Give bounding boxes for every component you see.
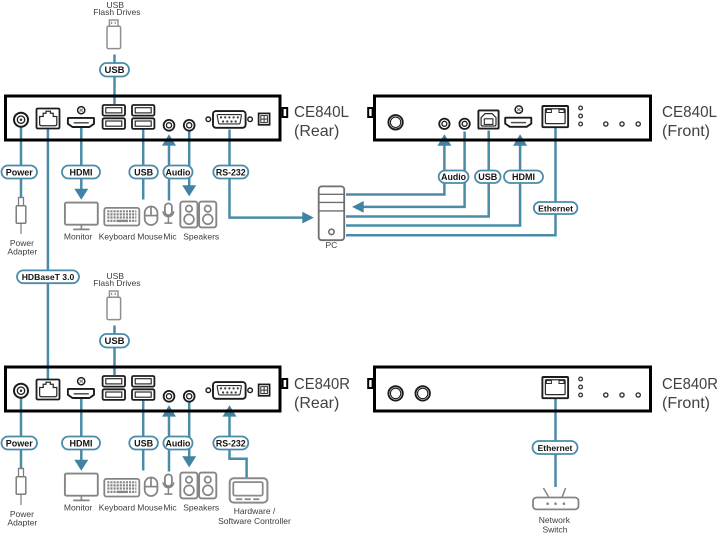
text CE840L (Rear): [294, 104, 349, 140]
CE840R front panel border overlay: [375, 367, 651, 411]
text CE840R (Front): [662, 376, 718, 412]
svg-text:Switch: Switch: [542, 524, 567, 534]
text CE840L (Front): [662, 104, 717, 140]
wire power adapter to CE840L rear DC jack: [20, 127, 23, 198]
svg-text:Software Controller: Software Controller: [218, 516, 291, 526]
CE840L rear panel chassis: [6, 96, 288, 140]
svg-text:USB: USB: [104, 65, 124, 76]
audio-out jack (CE840R rear): [184, 391, 195, 402]
svg-text:HDMI: HDMI: [512, 172, 535, 182]
svg-text:Mic: Mic: [163, 503, 177, 513]
svg-text:CE840R: CE840R: [662, 376, 718, 393]
svg-text:Ethernet: Ethernet: [538, 443, 573, 453]
svg-text:PC: PC: [325, 240, 337, 250]
svg-text:Speakers: Speakers: [183, 232, 219, 242]
DB9 RS-232 port (CE840L rear): [213, 111, 246, 128]
caption USB Flash Drives (top): [93, 0, 140, 17]
svg-text:Power: Power: [6, 438, 34, 448]
wire RS-232 CE840L rear to PC: [230, 130, 303, 218]
wire audio CE840L front to PC line-in: [364, 132, 465, 207]
svg-text:(Front): (Front): [662, 395, 710, 412]
svg-text:HDMI: HDMI: [70, 167, 93, 177]
svg-text:HDMI: HDMI: [70, 438, 93, 448]
wire HDMI CE840R rear to monitor: [80, 399, 83, 460]
wire HDBaseT link CE840L to CE840R: [47, 127, 50, 380]
pushbutton dots (CE840R front): [604, 393, 641, 397]
DB9 screw holes (CE840R rear): [206, 388, 252, 393]
audio-in jack (CE840L rear): [164, 120, 175, 131]
USB flash drive icon (top): [107, 20, 121, 49]
speakers icon (bottom): [180, 473, 216, 499]
CE840R rear panel chassis: [6, 367, 288, 411]
label HDMI (front): [504, 171, 543, 184]
svg-text:HDBaseT 3.0: HDBaseT 3.0: [22, 272, 75, 282]
arrowhead to monitor: [74, 189, 88, 200]
svg-text:Mouse: Mouse: [137, 503, 163, 513]
audio-in jack (CE840R rear): [164, 391, 175, 402]
wire audio-in CE840L rear (from mic): [168, 145, 171, 201]
grounding screw (CE840L rear): [78, 107, 85, 114]
audio jack 2 (CE840L front): [459, 119, 469, 129]
svg-text:Keyboard: Keyboard: [99, 503, 136, 513]
svg-text:RS-232: RS-232: [216, 167, 246, 177]
power adapter icon (top): [16, 198, 26, 235]
svg-text:(Front): (Front): [662, 123, 710, 140]
label USB (flash drive, top): [100, 63, 129, 77]
label USB (bottom): [129, 437, 158, 450]
wire audio-out CE840R rear to speakers: [188, 403, 191, 457]
svg-text:CE840L: CE840L: [662, 104, 717, 121]
LED column (CE840R front): [579, 377, 583, 397]
wire USB CE840L front to PC: [346, 131, 489, 217]
HDMI port (CE840L front): [505, 118, 531, 127]
power jack DC-in (CE840R rear): [14, 384, 28, 398]
caption USB Flash Drives (bottom): [93, 271, 140, 288]
wire HDMI CE840L rear to monitor: [80, 128, 83, 189]
label RS-232 (bottom): [213, 437, 248, 450]
RJ-45 HDBaseT port (CE840R rear): [37, 380, 60, 400]
wire USB CE840R rear to keyboard/mouse: [142, 401, 145, 471]
pushbutton dots (CE840L front): [604, 122, 641, 126]
monitor icon (top): [65, 203, 98, 230]
svg-text:USB: USB: [478, 172, 498, 182]
label USB (front): [475, 171, 501, 184]
RJ-45 HDBaseT port (CE840L rear): [37, 109, 60, 129]
caption Power Adapter (top): [7, 238, 37, 257]
power button (CE840L front): [388, 115, 402, 129]
wire audio-in CE840R rear (from mic): [168, 416, 171, 472]
wire USB CE840L rear to keyboard/mouse: [142, 130, 145, 200]
CE840L rear panel border overlay: [6, 96, 281, 140]
text CE840R (Rear): [294, 376, 350, 412]
PC tower icon: [319, 186, 345, 240]
svg-text:(Rear): (Rear): [294, 395, 339, 412]
HDMI port (CE840R rear): [68, 389, 94, 398]
arrowhead audio into PC: [352, 201, 364, 213]
caption Network Switch: [539, 515, 571, 534]
svg-text:Adapter: Adapter: [7, 246, 37, 256]
microphone icon (bottom): [163, 474, 174, 494]
microphone icon (top): [163, 203, 174, 223]
DB9 RS-232 port (CE840R rear): [213, 382, 246, 399]
label USB (top): [129, 166, 158, 179]
label Audio (bottom): [163, 437, 192, 450]
grounding screw (CE840R rear): [78, 378, 85, 385]
RJ-45 LAN port (CE840L front): [542, 106, 568, 127]
hardware/software controller icon: [230, 478, 268, 502]
USB flash drive icon (bottom): [107, 291, 121, 320]
arrowhead into front audio jack 1: [437, 134, 451, 145]
mouse icon (bottom): [145, 478, 158, 497]
CE840L front panel chassis: [368, 96, 650, 140]
svg-text:Audio: Audio: [165, 167, 191, 177]
svg-text:USB: USB: [104, 336, 124, 347]
arrowhead RS-232 into PC: [302, 212, 314, 224]
arrowhead to speakers: [182, 185, 196, 196]
label Audio (top): [163, 166, 192, 179]
button 1 (CE840R front): [388, 386, 402, 400]
label HDMI (top): [62, 166, 100, 179]
svg-text:Speakers: Speakers: [183, 503, 219, 513]
label RS-232 (top): [213, 166, 248, 179]
arrowhead into front HDMI port: [513, 134, 527, 145]
wire power adapter to CE840R rear DC jack: [20, 398, 23, 469]
caption Power Adapter (bottom): [7, 509, 37, 528]
label Power (bottom): [2, 437, 38, 450]
svg-text:Hardware /: Hardware /: [234, 506, 276, 516]
mouse icon (top): [145, 207, 158, 226]
wire RS-232 CE840R rear to controller: [230, 416, 247, 478]
arrowhead into audio-in jack: [162, 134, 176, 145]
USB ports x4 (CE840L rear): [103, 105, 155, 129]
svg-text:Ethernet: Ethernet: [538, 203, 573, 213]
USB type-B port (CE840L front): [478, 110, 498, 128]
svg-text:CE840L: CE840L: [294, 104, 349, 121]
label Power (top): [2, 166, 38, 179]
label HDMI (bottom): [62, 437, 100, 450]
wire USB flash drive to CE840R rear USB: [113, 326, 116, 376]
svg-text:Flash Drives: Flash Drives: [93, 7, 140, 17]
svg-text:Monitor: Monitor: [64, 503, 93, 513]
svg-text:USB: USB: [134, 167, 154, 177]
svg-text:Flash Drives: Flash Drives: [93, 278, 140, 288]
svg-text:USB: USB: [134, 438, 154, 448]
svg-text:Mouse: Mouse: [137, 232, 163, 242]
svg-text:Keyboard: Keyboard: [99, 232, 136, 242]
arrowhead into RS-232 DB9 (R): [223, 405, 237, 416]
wire Ethernet CE840L front to PC: [346, 128, 556, 235]
wire HDMI CE840L front to PC: [346, 145, 520, 226]
label HDBaseT 3.0: [17, 270, 79, 283]
speakers icon (top): [180, 202, 216, 228]
svg-text:Mic: Mic: [163, 232, 177, 242]
CE840L front panel border overlay: [375, 96, 651, 140]
wire audio-out CE840L rear to speakers: [188, 132, 191, 186]
audio jack 1 (CE840L front): [439, 119, 449, 129]
CE840R rear panel border overlay: [6, 367, 281, 411]
svg-text:Adapter: Adapter: [7, 517, 37, 527]
caption Hardware / Software Controller: [218, 506, 291, 526]
LED column (CE840L front): [579, 106, 583, 126]
label USB (flash drive, bottom): [100, 334, 129, 348]
keyboard icon (bottom): [104, 479, 139, 497]
svg-text:Power: Power: [6, 167, 34, 177]
label Audio (front): [439, 171, 469, 184]
arrowhead to monitor (R): [74, 460, 88, 471]
label Ethernet (top): [534, 202, 578, 214]
RJ-45 LAN port (CE840R front): [542, 377, 568, 398]
svg-text:Audio: Audio: [165, 438, 191, 448]
svg-text:(Rear): (Rear): [294, 123, 339, 140]
wire USB flash drive to CE840L rear USB: [113, 55, 116, 105]
DIP switch block (CE840L rear): [259, 113, 270, 124]
monitor icon (bottom): [65, 474, 98, 501]
HDMI port (CE840L rear): [68, 118, 94, 127]
svg-text:Audio: Audio: [441, 172, 467, 182]
captions Monitor/Keyboard/Mouse/Mic/Speakers (top): [64, 232, 219, 242]
power adapter icon (bottom): [16, 469, 26, 506]
arrowhead into audio-in jack (R): [162, 405, 176, 416]
audio-out jack (CE840L rear): [184, 120, 195, 131]
wire Ethernet CE840R front to network switch: [554, 399, 557, 487]
svg-text:CE840R: CE840R: [294, 376, 350, 393]
button 2 (CE840R front): [416, 386, 430, 400]
grounding screw (CE840L front): [515, 106, 522, 113]
DIP switch block (CE840R rear): [259, 384, 270, 395]
USB ports x4 (CE840R rear): [103, 376, 155, 400]
svg-text:RS-232: RS-232: [216, 438, 246, 448]
wire audio CE840L front to PC line-out: [346, 145, 444, 195]
power jack DC-in (CE840L rear): [14, 113, 28, 127]
svg-text:Monitor: Monitor: [64, 232, 93, 242]
arrowhead to speakers (R): [182, 456, 196, 467]
DB9 screw holes (CE840L rear): [206, 117, 252, 122]
CE840R front panel chassis: [368, 367, 650, 411]
network switch icon: [533, 488, 579, 509]
captions Monitor/Keyboard/Mouse/Mic/Speakers (bottom): [64, 503, 219, 513]
label Ethernet (bottom): [533, 441, 578, 454]
keyboard icon (top): [104, 208, 139, 226]
